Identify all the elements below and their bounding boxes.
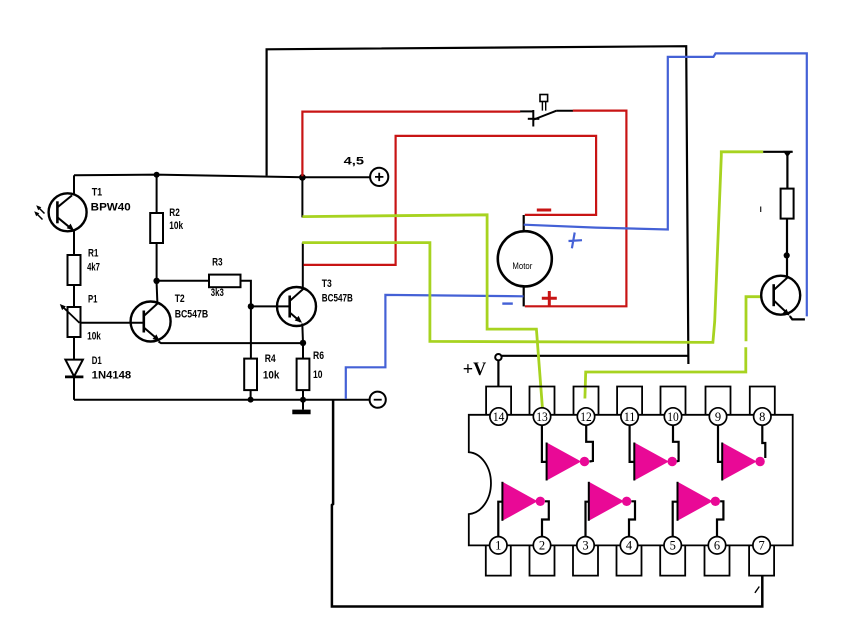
wire T1 collector (73, 175, 75, 194)
wire black outer loop box (267, 46, 689, 364)
wire inverter 5 output to pin 4 (629, 501, 635, 536)
pin 11 (621, 408, 638, 425)
wire pin 9 to inverter 3 input (718, 425, 722, 462)
node T3 base junction (248, 303, 254, 309)
wire blue motor minus terminal to battery minus (346, 295, 524, 399)
wire +V to pin 14 (497, 361, 499, 387)
svg-text:P1: P1 (88, 293, 98, 305)
wire resistor to transistor collector (786, 219, 788, 278)
pin 13 (533, 408, 550, 425)
inverter U1F (bottom row 3) (678, 482, 721, 521)
pin 1 (490, 537, 507, 554)
node junction +V red tap (299, 174, 306, 181)
svg-text:9: 9 (715, 410, 721, 424)
resistor right (unlabeled) (781, 189, 794, 219)
label blue minus (502, 302, 513, 304)
pin 14 pad (486, 387, 511, 415)
svg-text:1: 1 (495, 539, 501, 553)
node emitter junction (300, 340, 306, 346)
svg-text:10k: 10k (169, 220, 183, 232)
wire bottom negative rail (74, 399, 370, 401)
wire right top node (763, 151, 793, 153)
node R6 rail junction (300, 397, 306, 403)
svg-text:T1: T1 (92, 186, 103, 198)
pin 3 pad (573, 545, 598, 575)
wire T3 collector up to green node (302, 243, 304, 289)
inverter U1B (top row 2) (634, 443, 677, 481)
resistor R1 4k7 (68, 247, 100, 285)
wire pin 13 to inverter 1 input (542, 425, 547, 462)
svg-text:Motor: Motor (512, 261, 532, 272)
pin 6 pad (705, 545, 730, 575)
switch S1 pushbutton (520, 95, 573, 127)
wire bottom rail to IC pin 7 loop (332, 400, 762, 607)
wire inverter 2 output to pin 10 (673, 425, 679, 461)
wire junction to R3 (157, 280, 209, 282)
node T2 collector junction (153, 278, 159, 284)
pin 12 pad (574, 387, 599, 415)
pin 14 (490, 408, 507, 425)
wire right emitter to blue (790, 316, 805, 319)
wire R6 bottom (302, 390, 304, 400)
wire pin 11 to inverter 2 input (630, 425, 635, 462)
wire inverter 6 output to pin 6 (717, 501, 723, 536)
wire green IC pin 12 to right transistor base (585, 297, 761, 399)
pin 1 pad (486, 545, 511, 575)
pin 9 (709, 408, 726, 425)
svg-text:D1: D1 (92, 355, 102, 367)
wire emitter rail T2-T3 (159, 342, 304, 344)
wire main +4.5V rail (74, 175, 370, 178)
wire pin 3 to inverter 5 input (586, 502, 589, 537)
pin 13 pad (530, 387, 555, 415)
pin 8 (754, 408, 771, 425)
wire stub node A to green (301, 177, 303, 217)
pin 8 pad (750, 387, 775, 415)
pin 12 (577, 408, 594, 425)
node R4 rail junction (248, 397, 254, 403)
node +V terminal circle (495, 354, 501, 360)
pin 4 (620, 537, 637, 554)
svg-text:12: 12 (580, 410, 592, 424)
node arrow junction (783, 151, 792, 157)
wire R1 to P1 (73, 285, 75, 307)
pin 11 pad (617, 387, 642, 415)
pin 10 (664, 408, 681, 425)
wire D1 to ground rail (73, 377, 75, 400)
resistor R6 10 (297, 350, 324, 390)
wire R2 bottom to junction (156, 243, 158, 281)
IC U1 body DIP-14 (469, 415, 793, 546)
pin 2 (533, 537, 550, 554)
wire inverter 4 output to pin 2 (542, 501, 549, 536)
wire junction to R6 (302, 343, 304, 359)
resistor R2 10k (150, 207, 184, 243)
svg-text:10: 10 (313, 369, 323, 381)
phototransistor T1 BPW/40 (34, 186, 131, 231)
svg-text:13: 13 (536, 410, 548, 424)
svg-text:4: 4 (626, 539, 633, 553)
svg-text:11: 11 (624, 410, 636, 424)
transistor right (unlabeled) (761, 276, 800, 316)
pin 10 pad (661, 387, 686, 415)
wire P1 to D1 (73, 337, 75, 360)
transistor T3 BC547B (277, 278, 353, 326)
resistor R3 3k3 (209, 257, 241, 299)
pin 6 (708, 537, 725, 554)
node junction at R2 top (154, 172, 160, 178)
tick near pin7 wire (755, 587, 759, 593)
svg-text:10k: 10k (263, 369, 280, 381)
inverter U1C (top row 3) (722, 443, 765, 481)
svg-text:4,5: 4,5 (344, 155, 364, 167)
wire blue motor plus terminal to right transistor emitter (524, 53, 807, 316)
wire R2 top (156, 177, 158, 213)
wire T3 emitter down (301, 324, 304, 343)
wire pin 1 to inverter 4 input (498, 502, 502, 537)
wire red T3 collector to motor minus (304, 136, 597, 265)
svg-text:R6: R6 (313, 350, 324, 362)
inverter U1A (top row 1) (547, 443, 590, 481)
svg-text:BC547B: BC547B (175, 308, 209, 320)
svg-text:BPW40: BPW40 (91, 202, 131, 214)
svg-text:14: 14 (493, 410, 505, 424)
inverter U1E (bottom row 2) (589, 482, 632, 521)
inverter U1D (bottom row 1) (502, 482, 545, 521)
pin 2 pad (530, 545, 555, 575)
wire red switch to motor plus (525, 111, 627, 307)
wire T2 collector up (156, 283, 159, 303)
svg-text:8: 8 (759, 410, 765, 424)
wire pin 5 to inverter 6 input (673, 502, 678, 537)
svg-text:+V: +V (463, 359, 487, 380)
resistor R4 10k (244, 353, 280, 390)
pin 9 pad (706, 387, 731, 415)
svg-text:R2: R2 (169, 207, 180, 219)
transistor T2 BC547B (131, 293, 209, 341)
svg-text:R4: R4 (265, 353, 277, 365)
pin 5 pad (660, 545, 685, 575)
stray tick (760, 207, 762, 213)
svg-text:10k: 10k (87, 331, 101, 343)
svg-text:10: 10 (667, 410, 679, 424)
svg-text:R1: R1 (88, 247, 99, 259)
svg-text:T2: T2 (175, 293, 185, 305)
wire green battery node to IC pin 13 (302, 215, 542, 408)
svg-text:6: 6 (714, 539, 720, 553)
wire T3 base (251, 305, 290, 307)
wire to right resistor (786, 153, 788, 189)
svg-text:1N4148: 1N4148 (92, 369, 132, 381)
pin 7 (753, 537, 770, 554)
wire R3 to T3 base node (241, 281, 251, 359)
pin 7 pad (749, 545, 774, 575)
wire T1 emitter to R1 (73, 231, 75, 256)
node right collector junction (784, 252, 790, 258)
wire P1 wiper to T2 base (81, 322, 144, 324)
pin 4 pad (617, 545, 642, 575)
svg-text:7: 7 (758, 539, 764, 553)
wire inverter 1 output to pin 12 (586, 425, 593, 461)
battery - terminal (370, 392, 386, 408)
svg-text:R3: R3 (212, 257, 223, 269)
wire inverter 3 output to pin 8 (762, 425, 765, 458)
svg-text:5: 5 (670, 539, 676, 553)
wire +V supply line (502, 355, 689, 357)
pin 3 (577, 537, 594, 554)
svg-text:BC547B: BC547B (322, 292, 353, 304)
label red minus (537, 209, 551, 212)
motor M (498, 215, 552, 306)
potentiometer P1 10k (60, 293, 102, 342)
wire red battery+ to switch (302, 112, 520, 177)
wire R4 bottom (250, 390, 252, 400)
label blue plus (569, 233, 583, 249)
svg-text:T3: T3 (322, 278, 332, 290)
diode D1 1N4148 (65, 355, 131, 381)
wire green T3 collector to right transistor top (302, 152, 763, 343)
svg-text:3k3: 3k3 (211, 287, 224, 299)
svg-text:4k7: 4k7 (87, 261, 100, 273)
label red plus (542, 291, 557, 306)
ground (292, 400, 310, 412)
pin 5 (664, 537, 681, 554)
svg-text:2: 2 (539, 539, 545, 553)
svg-text:3: 3 (582, 539, 588, 553)
battery + terminal 4,5 (344, 155, 389, 186)
